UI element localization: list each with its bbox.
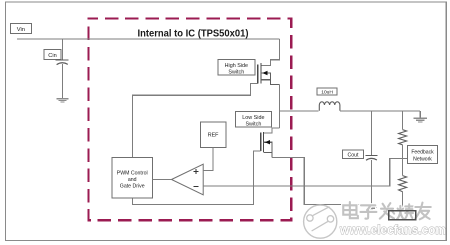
wire feedback to op-amp inverting input [203,158,407,186]
label Cin [44,49,61,59]
wire high-side gate drive [133,84,258,158]
wire Cin to ground [62,64,64,98]
wire high-side drain from Vin rail [261,39,280,66]
svg-text:PWM Control: PWM Control [117,171,148,177]
inductor L1 [319,102,340,111]
wire low-side drain [264,128,280,133]
wire divider midpoint [402,145,404,176]
watermark text dianzifashaoyou [343,202,431,219]
label Cout [343,150,364,159]
node GND label box border overlay [389,211,416,220]
wire output rail [340,110,420,112]
wire Vin rail [17,38,280,40]
resistor R2 [399,176,407,192]
block REF [200,122,226,148]
ground (output) [414,117,427,122]
svg-text:Gate Drive: Gate Drive [120,183,145,189]
block PWM Control and Gate Drive [112,158,152,199]
svg-text:Network: Network [413,156,432,162]
wire switch node vertical [279,85,281,128]
svg-text:Vin: Vin [17,27,25,33]
svg-text:Switch: Switch [245,121,261,127]
wire low-side source to power ground [272,157,371,204]
svg-text:High Side: High Side [225,63,248,69]
svg-text:REF: REF [208,133,219,139]
watermark logo circle [304,205,337,238]
ground (Cin) [57,98,69,103]
wire Cin branch [62,39,64,60]
wire op-amp output [152,179,171,181]
svg-text:Cout: Cout [348,152,360,158]
svg-text:and: and [128,177,137,183]
wire output rail to R1 [402,111,404,130]
transistor Q2 low-side MOSFET [261,132,272,157]
svg-text:Cin: Cin [48,53,56,59]
port Vin [10,24,31,34]
wire R2 bottom [402,192,404,211]
svg-text:www.elecfans.com: www.elecfans.com [339,222,446,237]
wire REF to op-amp non-inverting input [203,147,213,170]
label L1 10uH [317,88,337,95]
svg-text:Switch: Switch [228,69,244,75]
capacitor Cin [56,60,69,65]
svg-text:Feedback: Feedback [411,150,434,156]
transistor Q1 high-side MOSFET [258,63,280,85]
IC boundary (Internal to IC TPS50x01) [89,19,292,221]
wire output rail to ground [419,111,421,118]
wire Cout branch [370,111,372,156]
resistor R1 [399,130,407,145]
block Feedback Network [408,146,438,164]
label High Side Switch [218,60,255,76]
label Low Side Switch [236,112,272,128]
wire low-side gate drive [133,151,261,205]
svg-text:10uH: 10uH [321,89,333,95]
ground (Cout) [366,206,377,211]
capacitor Cout [366,156,378,161]
wire switch node to inductor [280,110,319,112]
svg-text:Low Side: Low Side [242,115,264,121]
op-amp U1 error amplifier [172,164,204,195]
wire Cout to ground [370,160,372,206]
node GND label box [389,211,416,220]
svg-text:Internal to IC (TPS50x01): Internal to IC (TPS50x01) [138,29,249,40]
